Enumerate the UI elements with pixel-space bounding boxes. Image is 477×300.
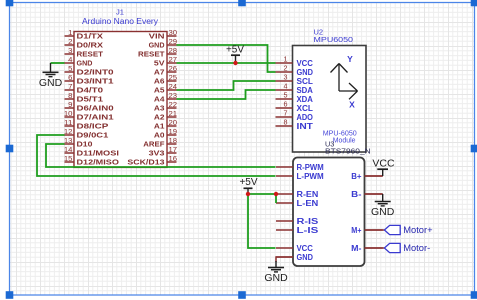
J1 pin 5 D2/INT0 xyxy=(65,64,114,77)
svg-text:2: 2 xyxy=(68,37,72,46)
J1 pin 24 A5 xyxy=(154,82,177,95)
U2 pin 5 XDA xyxy=(276,91,314,104)
J1 pin 9 D6/AIN0 xyxy=(65,100,114,113)
svg-text:22: 22 xyxy=(169,100,178,109)
svg-text:A2: A2 xyxy=(154,113,165,122)
svg-text:4: 4 xyxy=(284,82,288,91)
svg-text:A5: A5 xyxy=(154,86,165,95)
wire +5V to U3 R-EN xyxy=(248,193,276,195)
svg-text:D1/TX: D1/TX xyxy=(77,32,104,41)
power VCC flag at U3 B+ xyxy=(372,158,395,176)
svg-text:D6/AIN0: D6/AIN0 xyxy=(77,104,114,113)
svg-text:R-EN: R-EN xyxy=(297,190,319,199)
J1 pin 12 D9/0C1 xyxy=(64,127,108,140)
J1 pin 28 RESET xyxy=(138,46,177,59)
wire U3 M- to Motor- connector xyxy=(365,247,385,249)
wire J1 A5 to U2 SCL xyxy=(177,81,276,90)
svg-text:14: 14 xyxy=(64,145,73,154)
J1 pin 27 5V xyxy=(154,55,177,68)
svg-text:12: 12 xyxy=(64,127,73,136)
svg-text:GND: GND xyxy=(39,77,63,89)
svg-text:21: 21 xyxy=(169,109,178,118)
svg-text:XDA: XDA xyxy=(297,95,314,104)
wire U3 GND pin to ground xyxy=(276,257,293,262)
J1 pin 3 RESET xyxy=(65,46,104,59)
U2 pin 6 XCL xyxy=(276,100,314,113)
svg-text:A7: A7 xyxy=(154,68,165,77)
J1 pin 11 D8/ICP xyxy=(64,118,108,131)
U3 pin VCC xyxy=(276,244,313,253)
svg-text:SCK/D13: SCK/D13 xyxy=(127,158,164,167)
svg-text:GND: GND xyxy=(297,253,314,262)
junction dot R-EN / L-EN branch xyxy=(274,192,278,196)
svg-text:25: 25 xyxy=(169,73,178,82)
wire J1 D9/OC1 to U3 L-PWM xyxy=(37,135,276,176)
U2 pin 8 INT xyxy=(276,118,314,131)
svg-text:18: 18 xyxy=(169,136,178,145)
svg-text:6: 6 xyxy=(68,73,72,82)
svg-text:GND: GND xyxy=(297,68,314,77)
junction dot +5V / U2 VCC net xyxy=(233,61,237,65)
svg-text:23: 23 xyxy=(169,91,178,100)
J1 pin 2 D0/RX xyxy=(65,37,104,50)
svg-text:AREF: AREF xyxy=(143,140,165,149)
svg-text:A1: A1 xyxy=(154,122,165,131)
svg-text:24: 24 xyxy=(169,82,178,91)
J1 pin 19 A0 xyxy=(154,127,177,140)
wire J1 A4 to U2 SDA xyxy=(177,90,276,99)
svg-text:20: 20 xyxy=(169,118,178,127)
J1 pin 8 D5/T1 xyxy=(65,91,104,104)
svg-text:D10: D10 xyxy=(77,140,93,149)
svg-text:27: 27 xyxy=(169,55,178,64)
svg-text:INT: INT xyxy=(297,122,314,131)
svg-text:5V: 5V xyxy=(154,59,165,68)
power +5V flag at U3 xyxy=(239,177,257,194)
svg-text:Motor+: Motor+ xyxy=(403,225,433,236)
J1 pin 15 D12/MISO xyxy=(64,154,119,167)
svg-text:10: 10 xyxy=(64,109,73,118)
U2 pin 2 GND xyxy=(276,64,314,77)
power +5V flag at U2 xyxy=(226,45,244,63)
svg-text:15: 15 xyxy=(64,154,73,163)
ground symbol GND at U3 B- pin xyxy=(371,194,395,218)
svg-text:16: 16 xyxy=(169,154,178,163)
U2 pin 7 ADO xyxy=(276,109,313,122)
svg-text:XCL: XCL xyxy=(297,104,314,113)
svg-text:A4: A4 xyxy=(154,95,166,104)
svg-text:B+: B+ xyxy=(351,172,362,181)
J1 pin 7 D4/T0 xyxy=(65,82,104,95)
connector flag Motor- xyxy=(384,243,430,254)
svg-text:11: 11 xyxy=(64,118,73,127)
svg-text:1: 1 xyxy=(68,28,72,37)
svg-text:M-: M- xyxy=(351,244,362,253)
svg-text:D12/MISO: D12/MISO xyxy=(77,158,120,167)
svg-text:L-IS: L-IS xyxy=(297,226,320,235)
wire U3 M+ to Motor+ connector xyxy=(365,229,385,231)
connector J1 Arduino Nano Every xyxy=(64,8,177,168)
J1 pin 25 A6 xyxy=(154,73,177,86)
svg-text:X: X xyxy=(349,100,355,110)
wire J1 pin4 GND to ground symbol xyxy=(51,62,65,64)
svg-text:7: 7 xyxy=(68,82,72,91)
wire J1 GND pin29 to U2 GND xyxy=(177,45,276,72)
J1 pin 20 A1 xyxy=(154,118,177,131)
svg-text:Motor-: Motor- xyxy=(403,243,430,254)
J1 pin 17 3V3 xyxy=(149,145,178,158)
U3 pin B- xyxy=(351,190,383,199)
svg-text:D11/MOSI: D11/MOSI xyxy=(77,149,119,158)
svg-text:GND: GND xyxy=(264,272,288,284)
svg-text:D9/0C1: D9/0C1 xyxy=(77,131,109,140)
svg-text:MPU6050: MPU6050 xyxy=(314,35,354,44)
svg-text:D0/RX: D0/RX xyxy=(77,41,104,50)
svg-text:D4/T0: D4/T0 xyxy=(77,86,104,95)
connector flag Motor+ xyxy=(384,225,433,236)
U3 pin R-PWM xyxy=(276,163,324,172)
svg-text:M+: M+ xyxy=(351,226,362,235)
svg-text:L-EN: L-EN xyxy=(297,199,319,208)
J1 pin 23 A4 xyxy=(154,91,177,104)
svg-text:5: 5 xyxy=(284,91,288,100)
svg-text:17: 17 xyxy=(169,145,178,154)
svg-text:A3: A3 xyxy=(154,104,165,113)
svg-text:R-IS: R-IS xyxy=(297,217,320,226)
svg-text:6: 6 xyxy=(284,100,288,109)
svg-text:8: 8 xyxy=(68,91,72,100)
U2 pin 3 SCL xyxy=(276,73,314,86)
svg-text:Y: Y xyxy=(347,54,353,64)
svg-text:29: 29 xyxy=(169,37,178,46)
J1 pin 14 D11/MOSI xyxy=(64,145,119,158)
svg-text:+5V: +5V xyxy=(226,45,244,56)
J1 pin 10 D7/AIN1 xyxy=(64,109,114,122)
svg-text:VCC: VCC xyxy=(297,244,314,253)
J1 pin 1 D1/TX xyxy=(65,28,104,41)
svg-text:1: 1 xyxy=(284,55,288,64)
svg-text:MPU-6050: MPU-6050 xyxy=(323,130,357,137)
wire R-EN to L-EN tie xyxy=(275,195,277,203)
svg-text:30: 30 xyxy=(169,28,178,37)
svg-text:D5/T1: D5/T1 xyxy=(77,95,104,104)
svg-text:13: 13 xyxy=(64,136,73,145)
svg-text:SDA: SDA xyxy=(297,86,314,95)
U3 pin L-PWM xyxy=(276,172,324,181)
svg-text:R-PWM: R-PWM xyxy=(297,163,325,172)
svg-text:VCC: VCC xyxy=(372,158,395,170)
svg-text:GND: GND xyxy=(77,59,93,68)
svg-text:D7/AIN1: D7/AIN1 xyxy=(77,113,114,122)
U3 pin R-EN xyxy=(276,190,319,199)
wire +5V down to U3 VCC xyxy=(248,194,276,248)
svg-text:2: 2 xyxy=(284,64,288,73)
svg-text:4: 4 xyxy=(68,55,72,64)
svg-text:19: 19 xyxy=(169,127,178,136)
ground symbol GND at U3 GND pin xyxy=(264,261,288,284)
junction dot +5V tap on R-EN net xyxy=(246,192,250,196)
svg-text:BTS7960_N: BTS7960_N xyxy=(325,147,371,156)
U2 XY axis glyph xyxy=(331,54,358,110)
U3 pin M- xyxy=(351,244,383,253)
svg-text:Module: Module xyxy=(333,137,356,144)
svg-text:SCL: SCL xyxy=(297,77,314,86)
U2 pin 1 VCC xyxy=(276,55,314,68)
svg-text:+5V: +5V xyxy=(239,177,257,188)
svg-text:RESET: RESET xyxy=(138,50,165,59)
svg-text:9: 9 xyxy=(68,100,72,109)
svg-text:D2/INT0: D2/INT0 xyxy=(77,68,114,77)
svg-text:A0: A0 xyxy=(154,131,165,140)
U3 pin M+ xyxy=(351,226,383,235)
svg-text:26: 26 xyxy=(169,64,178,73)
svg-text:B-: B- xyxy=(351,190,362,199)
wire J1 5V to U2 VCC xyxy=(177,62,276,64)
svg-text:D8/ICP: D8/ICP xyxy=(77,122,109,131)
svg-text:GND: GND xyxy=(149,41,165,50)
wire J1 D10 to U3 R-PWM xyxy=(46,144,276,167)
IC U3 BTS7960_N motor driver xyxy=(276,139,383,266)
svg-text:3V3: 3V3 xyxy=(149,149,165,158)
svg-text:J1: J1 xyxy=(116,8,124,17)
J1 pin 13 D10 xyxy=(64,136,93,149)
J1 pin 29 GND xyxy=(149,37,178,50)
svg-text:VIN: VIN xyxy=(149,32,165,41)
J1 pin 6 D3/INT1 xyxy=(65,73,114,86)
J1 pin 21 A2 xyxy=(154,109,177,122)
U2 pin 4 SDA xyxy=(276,82,314,95)
wire U3 B+ to VCC xyxy=(365,175,383,177)
IC U2 MPU6050 module xyxy=(276,28,367,153)
svg-text:3: 3 xyxy=(284,73,288,82)
svg-text:ADO: ADO xyxy=(297,113,313,122)
J1 pin 22 A3 xyxy=(154,100,177,113)
svg-text:D3/INT1: D3/INT1 xyxy=(77,77,114,86)
U3 pin L-IS xyxy=(276,226,319,235)
svg-text:VCC: VCC xyxy=(297,59,314,68)
svg-text:A6: A6 xyxy=(154,77,165,86)
svg-text:5: 5 xyxy=(68,64,72,73)
wire U3 B- to ground xyxy=(365,193,383,195)
svg-text:3: 3 xyxy=(68,46,72,55)
U3 pin B+ xyxy=(351,172,383,181)
U3 pin L-EN xyxy=(276,199,319,208)
svg-text:7: 7 xyxy=(284,109,288,118)
svg-text:L-PWM: L-PWM xyxy=(297,172,325,181)
J1 pin 16 SCK/D13 xyxy=(127,154,177,167)
svg-text:RESET: RESET xyxy=(77,50,104,59)
J1 pin 30 VIN xyxy=(149,28,178,41)
svg-text:28: 28 xyxy=(169,46,178,55)
U3 pin GND xyxy=(276,253,313,262)
svg-text:GND: GND xyxy=(371,206,395,218)
U3 pin R-IS xyxy=(276,217,319,226)
ground symbol GND at J1 pin 4 xyxy=(39,63,63,89)
J1 pin 4 GND xyxy=(65,55,93,68)
J1 pin 18 AREF xyxy=(143,136,177,149)
svg-text:8: 8 xyxy=(284,118,288,127)
J1 pin 26 A7 xyxy=(154,64,177,77)
svg-text:Arduino Nano Every: Arduino Nano Every xyxy=(82,17,158,26)
